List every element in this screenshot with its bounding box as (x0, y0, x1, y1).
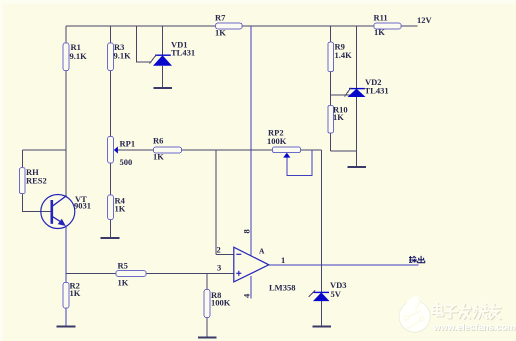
wire R10 to VD2 anode (331, 150, 357, 152)
node output label 输出 (hand-drawn strokes) (409, 256, 425, 263)
resistor R11 (374, 13, 402, 38)
resistor R3 (108, 42, 131, 71)
svg-text:2: 2 (217, 245, 221, 255)
ground under VD1 (154, 87, 173, 89)
svg-text:RP1: RP1 (120, 139, 136, 149)
svg-text:TL431: TL431 (171, 48, 195, 58)
svg-text:8: 8 (242, 229, 252, 233)
wire RH column (21, 150, 23, 168)
svg-text:9031: 9031 (74, 201, 91, 211)
svg-text:1K: 1K (70, 288, 81, 298)
watermark text shadow (433, 304, 501, 320)
wire R8 drop (206, 274, 208, 338)
TL431 VD1 (150, 40, 196, 66)
wire VD2 cathode (356, 26, 358, 89)
svg-text:9.1K: 9.1K (70, 51, 88, 61)
wire emitter down (65, 226, 67, 326)
wire VD2 anode to ground (356, 97, 358, 167)
watermark logo circle (399, 296, 430, 332)
wire pin4 stub (250, 276, 252, 298)
wire VD3 anode to ground (320, 301, 322, 326)
TL431 VD2 (345, 77, 389, 97)
wire R6 to RP2 to feedback (182, 149, 322, 151)
ground under R2 (57, 325, 76, 327)
svg-text:LM358: LM358 (269, 283, 295, 293)
svg-text:9.1K: 9.1K (114, 51, 132, 61)
wire RH to base (22, 194, 50, 212)
wire output (269, 264, 419, 266)
wire column R1/VT/R2 (65, 26, 67, 196)
wire VD1 cathode (162, 26, 164, 55)
ground under R8 (198, 336, 216, 338)
resistor R4 (108, 195, 126, 220)
svg-text:TL431: TL431 (365, 86, 389, 96)
svg-text:R6: R6 (153, 136, 163, 146)
svg-text:12V: 12V (417, 15, 433, 25)
wire column R9/R10 (330, 26, 332, 151)
svg-text:R11: R11 (374, 13, 388, 23)
wire RP2 wiper loop (287, 150, 312, 176)
potentiometer RP1 (108, 137, 135, 168)
resistor R2 (63, 281, 81, 309)
transistor VT (9031) (41, 194, 91, 229)
resistor R6 (153, 136, 182, 162)
wire pin3 rail (66, 273, 234, 275)
resistor R9 (328, 42, 352, 72)
svg-text:5V: 5V (331, 289, 342, 299)
svg-text:1K: 1K (374, 27, 385, 37)
svg-text:R7: R7 (215, 13, 226, 23)
zener VD3 (309, 280, 347, 301)
resistor RH (20, 167, 47, 194)
wire VD2 ref (331, 94, 352, 96)
wire RH top (22, 149, 66, 151)
resistor R5 (116, 261, 146, 288)
wire inverting tap down (215, 150, 217, 254)
ground under VD2 (348, 166, 367, 168)
resistor R10 (328, 105, 348, 134)
wire VD1 ref drop (136, 26, 151, 62)
resistor R1 (63, 42, 87, 71)
potentiometer RP2 (267, 128, 301, 158)
svg-text:1K: 1K (153, 152, 164, 162)
svg-text:www.elecfans.com: www.elecfans.com (433, 322, 516, 332)
svg-text:100K: 100K (211, 298, 231, 308)
wire feedback drop (320, 150, 322, 265)
resistor R8 (204, 290, 231, 318)
wire op-amp pin8 supply drop (250, 26, 252, 256)
svg-text:1K: 1K (115, 204, 126, 214)
resistor R7 (215, 13, 242, 38)
wire top rail (66, 25, 418, 27)
wire RP1 wiper to R6 (117, 149, 154, 151)
wire column R3/RP1/R4 (110, 26, 112, 238)
wire VD1 anode to ground (162, 66, 164, 88)
wire VD3 cathode (320, 265, 322, 293)
svg-text:3: 3 (217, 263, 221, 273)
svg-text:1.4K: 1.4K (335, 50, 353, 60)
ground under R4 (101, 237, 120, 239)
svg-text:500: 500 (120, 157, 133, 167)
op-amp U1 LM358 (217, 229, 296, 298)
svg-text:1K: 1K (333, 112, 344, 122)
svg-text:1K: 1K (215, 28, 226, 38)
wire pin2 (216, 253, 234, 255)
ground under VD3 (313, 325, 332, 327)
watermark text 电子发烧友 (hand-drawn strokes) (433, 303, 501, 319)
svg-text:A: A (259, 247, 265, 256)
svg-text:RES2: RES2 (26, 176, 47, 186)
svg-text:100K: 100K (267, 136, 287, 146)
svg-text:1K: 1K (118, 278, 129, 288)
svg-text:R5: R5 (118, 261, 128, 271)
svg-text:1: 1 (281, 255, 285, 265)
